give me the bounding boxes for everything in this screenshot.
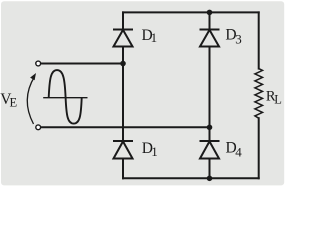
terminal bottom (open circle) bbox=[36, 125, 41, 130]
node bottom rail junction dot bbox=[207, 176, 213, 182]
diode D1 bottom-left bbox=[113, 141, 133, 159]
svg-text:4: 4 bbox=[235, 144, 242, 159]
wire load column upper lead bbox=[258, 12, 260, 68]
wire left bridge column upper lead bbox=[122, 12, 124, 29]
wire right bridge column upper lead (top rail to D3) bbox=[209, 12, 211, 29]
wire bottom rail bbox=[123, 177, 259, 179]
wire top rail bbox=[123, 11, 259, 13]
svg-text:1: 1 bbox=[151, 144, 158, 159]
svg-text:L: L bbox=[274, 93, 282, 107]
source sine baseline bbox=[43, 97, 87, 99]
node A (mid-left junction dot) bbox=[120, 61, 126, 67]
polarity arrow arc bbox=[27, 77, 34, 125]
svg-text:1: 1 bbox=[151, 30, 158, 45]
wire bottom terminal to node B bbox=[41, 126, 209, 128]
source sine wave bbox=[49, 70, 82, 124]
diode D1 top-left bbox=[113, 30, 133, 47]
wire D4 anode lead to bottom rail bbox=[209, 159, 211, 179]
diode D3 top-right bbox=[200, 30, 220, 47]
wire between D1 top and mid-left node bbox=[122, 47, 124, 64]
svg-text:3: 3 bbox=[235, 32, 242, 47]
polarity arrowhead bbox=[30, 73, 36, 80]
node B (bottom terminal junction dot) bbox=[207, 125, 213, 131]
wire D1 bottom anode lead down to bottom rail bbox=[122, 159, 124, 179]
wire load column lower lead bbox=[258, 118, 260, 178]
terminal top (open circle) bbox=[36, 61, 41, 66]
node top rail junction dot bbox=[207, 10, 213, 16]
wire left column node A down to D1 bottom (crosses V- wire, no joint) bbox=[122, 64, 124, 142]
svg-text:E: E bbox=[10, 95, 18, 109]
panel background bbox=[0, 0, 286, 189]
diode D4 bottom-right bbox=[200, 141, 220, 159]
resistor RL zigzag bbox=[255, 69, 263, 119]
wire mid-left from top terminal to node A bbox=[41, 63, 123, 65]
wire D3 anode down through node B to D4 cathode bbox=[209, 47, 211, 142]
